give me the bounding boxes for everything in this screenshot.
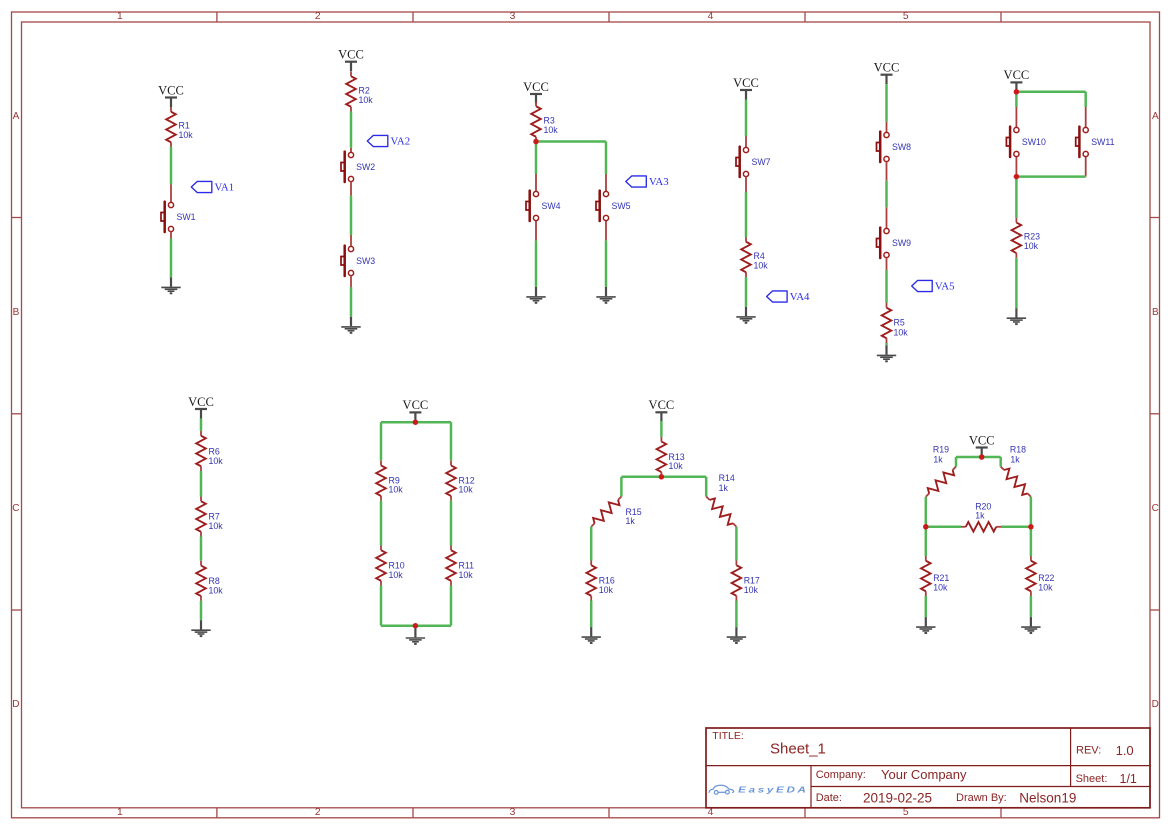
svg-text:10k: 10k xyxy=(894,328,909,338)
svg-text:10k: 10k xyxy=(1038,582,1053,592)
svg-text:10k: 10k xyxy=(933,582,948,592)
svg-text:SW2: SW2 xyxy=(356,162,375,172)
svg-text:1/1: 1/1 xyxy=(1120,772,1137,786)
svg-text:VCC: VCC xyxy=(649,398,675,412)
svg-text:VA1: VA1 xyxy=(215,181,235,193)
svg-text:10k: 10k xyxy=(459,570,474,580)
svg-text:5: 5 xyxy=(903,11,909,22)
svg-text:5: 5 xyxy=(903,807,909,818)
svg-text:R11: R11 xyxy=(459,561,475,571)
svg-text:10k: 10k xyxy=(179,130,194,140)
svg-text:R16: R16 xyxy=(599,576,615,586)
svg-text:VCC: VCC xyxy=(523,80,549,94)
svg-text:1k: 1k xyxy=(933,454,943,464)
svg-text:R2: R2 xyxy=(359,86,370,96)
svg-text:10k: 10k xyxy=(669,461,684,471)
svg-text:R1: R1 xyxy=(179,121,190,131)
svg-text:2: 2 xyxy=(315,807,321,818)
svg-text:SW11: SW11 xyxy=(1091,137,1114,147)
svg-text:VA5: VA5 xyxy=(935,280,955,292)
svg-text:TITLE:: TITLE: xyxy=(712,730,744,742)
svg-text:1.0: 1.0 xyxy=(1116,743,1134,758)
svg-text:4: 4 xyxy=(708,807,714,818)
svg-text:4: 4 xyxy=(708,11,714,22)
svg-text:10k: 10k xyxy=(459,485,474,495)
svg-text:Sheet:: Sheet: xyxy=(1076,773,1108,785)
svg-text:SW10: SW10 xyxy=(1022,137,1046,147)
svg-text:VCC: VCC xyxy=(403,398,429,412)
svg-text:Drawn By:: Drawn By: xyxy=(956,792,1007,804)
svg-text:3: 3 xyxy=(510,807,516,818)
svg-text:Company:: Company: xyxy=(816,769,866,781)
svg-text:10k: 10k xyxy=(754,261,769,271)
svg-text:Sheet_1: Sheet_1 xyxy=(770,740,826,757)
svg-text:REV:: REV: xyxy=(1076,744,1101,756)
svg-text:VCC: VCC xyxy=(338,48,364,62)
svg-text:B: B xyxy=(13,307,20,318)
svg-text:R6: R6 xyxy=(209,447,220,457)
svg-text:A: A xyxy=(13,111,20,122)
svg-text:VA2: VA2 xyxy=(391,135,411,147)
svg-text:D: D xyxy=(1152,699,1159,710)
svg-text:R4: R4 xyxy=(754,251,765,261)
svg-text:1k: 1k xyxy=(1010,454,1020,464)
svg-text:10k: 10k xyxy=(359,95,374,105)
svg-text:SW4: SW4 xyxy=(542,201,561,211)
svg-text:1: 1 xyxy=(117,807,123,818)
svg-text:R8: R8 xyxy=(209,576,220,586)
svg-text:VCC: VCC xyxy=(1004,68,1030,82)
svg-text:SW9: SW9 xyxy=(892,238,911,248)
svg-text:C: C xyxy=(1152,503,1159,514)
svg-text:1: 1 xyxy=(117,11,123,22)
svg-text:10k: 10k xyxy=(1024,241,1039,251)
svg-text:R5: R5 xyxy=(894,318,905,328)
svg-text:1k: 1k xyxy=(626,516,636,526)
svg-text:D: D xyxy=(12,699,19,710)
svg-text:VCC: VCC xyxy=(158,83,184,97)
svg-text:VCC: VCC xyxy=(874,61,900,75)
svg-text:R3: R3 xyxy=(544,116,555,126)
svg-text:2019-02-25: 2019-02-25 xyxy=(863,790,932,805)
svg-text:R19: R19 xyxy=(933,445,949,455)
svg-text:R23: R23 xyxy=(1024,231,1040,241)
svg-text:Your Company: Your Company xyxy=(881,767,967,782)
svg-text:1k: 1k xyxy=(719,483,729,493)
svg-text:VCC: VCC xyxy=(969,433,995,447)
svg-text:SW7: SW7 xyxy=(752,157,771,167)
svg-text:SW8: SW8 xyxy=(892,142,911,152)
svg-text:R17: R17 xyxy=(744,576,760,586)
svg-text:2: 2 xyxy=(315,11,321,22)
svg-text:SW1: SW1 xyxy=(177,212,196,222)
svg-text:B: B xyxy=(1152,307,1159,318)
svg-text:10k: 10k xyxy=(599,585,614,595)
svg-text:VA4: VA4 xyxy=(790,291,810,303)
svg-text:10k: 10k xyxy=(209,456,224,466)
svg-text:10k: 10k xyxy=(544,125,559,135)
svg-text:SW3: SW3 xyxy=(356,256,375,266)
svg-text:VCC: VCC xyxy=(733,76,759,90)
svg-text:3: 3 xyxy=(510,11,516,22)
svg-text:R10: R10 xyxy=(389,561,405,571)
svg-text:EasyEDA: EasyEDA xyxy=(738,786,808,795)
svg-text:C: C xyxy=(12,503,19,514)
svg-text:1k: 1k xyxy=(975,511,985,521)
svg-text:10k: 10k xyxy=(389,570,404,580)
svg-text:SW5: SW5 xyxy=(612,201,631,211)
svg-text:R18: R18 xyxy=(1010,445,1026,455)
svg-text:10k: 10k xyxy=(209,586,224,596)
svg-text:Nelson19: Nelson19 xyxy=(1019,790,1076,805)
svg-text:Date:: Date: xyxy=(816,792,842,804)
svg-text:R14: R14 xyxy=(719,473,735,483)
svg-text:R7: R7 xyxy=(209,512,220,522)
svg-text:VCC: VCC xyxy=(188,395,214,409)
svg-text:10k: 10k xyxy=(209,521,224,531)
svg-text:10k: 10k xyxy=(744,585,759,595)
svg-text:A: A xyxy=(1152,111,1159,122)
svg-text:10k: 10k xyxy=(389,485,404,495)
svg-text:VA3: VA3 xyxy=(649,176,669,188)
